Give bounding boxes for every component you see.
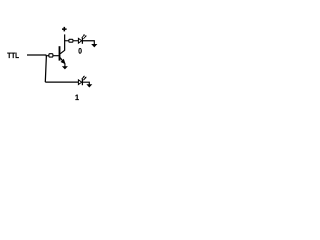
svg-text:1: 1 bbox=[75, 93, 80, 102]
label 1 bbox=[75, 93, 80, 102]
LED D1 bbox=[78, 34, 86, 44]
wire LED 1 to ground corner bbox=[83, 82, 89, 84]
resistor R1 base bbox=[49, 54, 53, 57]
supply + symbol bbox=[62, 27, 67, 32]
svg-text:TTL: TTL bbox=[7, 51, 19, 60]
label 0 bbox=[78, 47, 82, 56]
wire R2 to LED 0 bbox=[73, 40, 79, 42]
LED D2 bbox=[78, 76, 86, 86]
wire bottom horizontal to LED 1 bbox=[45, 81, 78, 83]
wire branch to resistor R2 bbox=[65, 40, 69, 42]
wire LED 0 to ground corner bbox=[83, 41, 94, 44]
ground arrow output 0 bbox=[91, 44, 97, 47]
wire vertical from junction down bbox=[45, 55, 46, 82]
ground arrow output 1 bbox=[86, 84, 92, 87]
transistor Q1 bbox=[60, 46, 65, 63]
resistor R2 bbox=[69, 39, 73, 42]
wire supply vertical to collector bbox=[64, 34, 66, 50]
wire junction to base resistor bbox=[46, 55, 49, 57]
svg-text:0: 0 bbox=[78, 47, 82, 56]
wire base resistor to transistor base bbox=[53, 55, 59, 57]
wire emitter to ground bbox=[64, 63, 66, 66]
wire input from TTL bbox=[27, 54, 46, 56]
ground arrow emitter bbox=[62, 66, 68, 69]
label TTL bbox=[7, 51, 19, 60]
